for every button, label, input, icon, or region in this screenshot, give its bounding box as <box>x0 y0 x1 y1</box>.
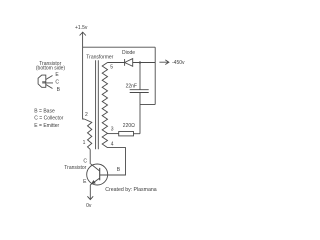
wire pin 3 tap to resistor <box>108 133 119 135</box>
wire emitter down to 0v <box>89 185 91 200</box>
svg-text:220Ω: 220Ω <box>123 123 135 129</box>
primary winding (left coil, pins 2-1) <box>84 119 92 149</box>
legend transistor can outline (bottom view) <box>38 75 46 87</box>
svg-text:5: 5 <box>110 64 113 70</box>
wire pin 1 to transistor collector <box>89 149 91 164</box>
svg-text:E = Emitter: E = Emitter <box>34 123 59 129</box>
svg-text:B: B <box>117 167 121 173</box>
legend collector lead lines <box>42 82 53 83</box>
transistor Q1 circle <box>87 164 108 185</box>
node +1.5v arrow up <box>80 32 86 35</box>
svg-text:+1.5v: +1.5v <box>75 25 88 31</box>
wire left rail vertical from +1.5v arrow down to primary winding <box>83 32 85 119</box>
svg-text:4: 4 <box>111 142 114 148</box>
transformer core lines <box>96 60 99 149</box>
svg-text:Created by: Plasmana: Created by: Plasmana <box>105 187 156 193</box>
wire diode to right rail <box>133 62 156 64</box>
svg-text:Transformer: Transformer <box>86 55 113 61</box>
svg-text:1: 1 <box>83 140 86 146</box>
wire pin 4 to transistor base <box>100 148 126 175</box>
secondary winding (right coil, pins 5-3-4) <box>102 63 107 148</box>
node 0v arrow down <box>87 196 93 199</box>
wire diode node down to capacitor <box>139 63 141 90</box>
capacitor C1 plates <box>130 90 149 93</box>
svg-text:Transistor: Transistor <box>64 165 86 171</box>
wire right rail vertical <box>154 47 156 104</box>
svg-text:B = Base: B = Base <box>34 108 55 114</box>
svg-text:-450v: -450v <box>172 60 185 66</box>
wire capacitor bottom down to resistor node <box>139 93 141 134</box>
svg-text:0v: 0v <box>86 203 92 209</box>
transistor Q1 collector line <box>91 164 100 171</box>
wire bottom of right rail to capacitor bottom node <box>140 104 155 106</box>
wire top rail horizontal <box>83 46 156 48</box>
svg-text:(bottom side): (bottom side) <box>36 66 66 72</box>
svg-text:C = Collector: C = Collector <box>34 116 63 122</box>
diode D1 cathode bar <box>124 59 126 66</box>
svg-text:22nF: 22nF <box>126 83 137 89</box>
legend base lead line <box>46 85 53 89</box>
wire pin 5 to diode <box>108 62 125 64</box>
svg-text:Diode: Diode <box>122 50 135 56</box>
svg-text:3: 3 <box>111 126 114 132</box>
node junction dot diode/capacitor <box>139 61 141 63</box>
transistor Q1 emitter line <box>90 178 99 185</box>
wire resistor to capacitor bottom node <box>134 133 141 135</box>
output arrow -450v <box>159 60 169 65</box>
resistor R1 body <box>119 132 134 136</box>
transistor Q1 base bar <box>99 168 101 180</box>
svg-text:C: C <box>55 79 59 85</box>
svg-text:C: C <box>83 158 87 164</box>
svg-text:B: B <box>57 87 61 93</box>
svg-text:E: E <box>83 179 87 185</box>
svg-text:E: E <box>55 72 59 78</box>
transistor Q1 emitter arrowhead <box>92 181 95 184</box>
svg-text:2: 2 <box>85 112 88 118</box>
diode D1 triangle <box>125 59 133 67</box>
legend emitter lead line <box>46 76 53 80</box>
